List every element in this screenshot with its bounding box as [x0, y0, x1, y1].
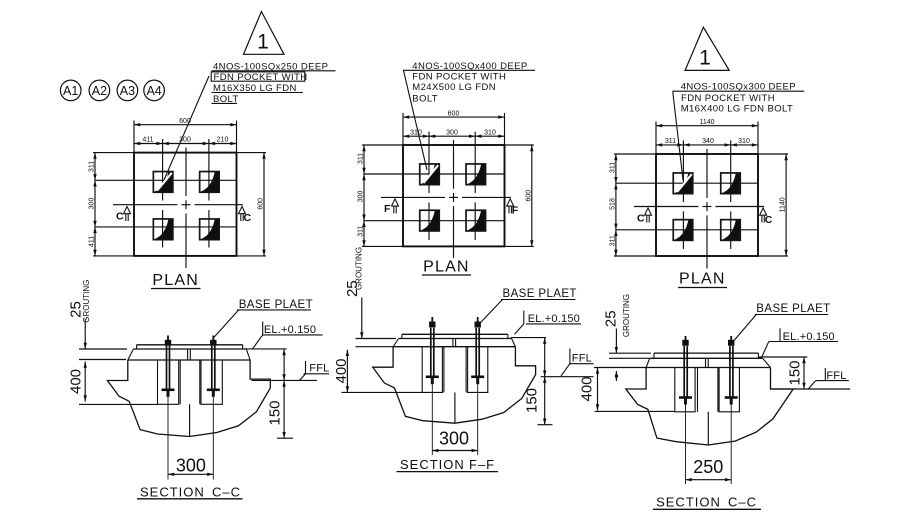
section2 footing outline	[373, 347, 536, 424]
plan2 left extension lines	[362, 144, 403, 146]
section3 grout layer	[646, 358, 650, 367]
svg-text:1140: 1140	[699, 119, 714, 126]
section3 base plate	[654, 352, 758, 354]
plan3 horizontal centerline	[634, 206, 699, 208]
svg-text:F–F: F–F	[469, 457, 495, 472]
svg-text:25: 25	[602, 310, 619, 327]
section1 dim EL to FFL	[283, 349, 285, 380]
plan1 section arrow C right	[239, 207, 246, 222]
svg-text:C: C	[765, 214, 773, 226]
svg-text:FDN POCKET WITH: FDN POCKET WITH	[412, 72, 506, 83]
plan2 right dimension line 600	[531, 145, 533, 246]
svg-text:SECTION: SECTION	[656, 494, 721, 509]
plan1 left dimension line	[94, 153, 96, 256]
section1 base plate	[137, 344, 243, 346]
svg-text:FFL: FFL	[826, 370, 846, 382]
plan3 left dimension line	[615, 154, 617, 256]
plan3 section arrow C right	[760, 208, 767, 223]
section2 centerline below	[454, 392, 456, 423]
svg-text:A4: A4	[146, 84, 161, 98]
svg-text:310: 310	[410, 129, 422, 136]
plan3 footing outline	[656, 154, 758, 256]
svg-text:300: 300	[358, 190, 365, 202]
plan2 pocket upper-right	[466, 164, 486, 185]
leader to plan 2 pocket	[404, 71, 428, 171]
svg-text:600: 600	[258, 198, 265, 210]
svg-text:A3: A3	[120, 84, 135, 98]
svg-text:C–C: C–C	[212, 484, 241, 499]
plan3 left extension lines	[614, 153, 656, 155]
svg-text:1140: 1140	[780, 197, 787, 212]
plan2 pocket column centerlines	[428, 132, 430, 193]
svg-text:600: 600	[179, 118, 191, 125]
plan1 pocket lower-right	[200, 219, 220, 240]
plan2 left dimension line	[363, 145, 365, 246]
plan1 pocket upper-left	[153, 172, 173, 193]
svg-text:311: 311	[358, 153, 365, 164]
grid circle A2	[89, 80, 110, 101]
svg-text:M16X400 LG FDN BOLT: M16X400 LG FDN BOLT	[681, 104, 794, 115]
svg-text:GROUTING: GROUTING	[82, 280, 91, 323]
svg-text:PLAN: PLAN	[679, 271, 726, 288]
leader to plan 3 pocket	[673, 91, 683, 180]
plan2 footing outline	[403, 145, 505, 246]
section1 anchor bolt right	[212, 336, 214, 341]
plan1 top chain dimension 411/300/210	[134, 143, 237, 145]
section1 pocket right	[201, 360, 222, 404]
svg-text:311: 311	[358, 226, 365, 237]
svg-text:411: 411	[142, 137, 153, 144]
svg-text:SECTION: SECTION	[400, 457, 465, 472]
svg-text:300: 300	[446, 129, 458, 136]
section2 anchor bolt left	[431, 317, 433, 322]
plan1 pocket upper-right	[200, 172, 220, 193]
svg-text:150: 150	[787, 360, 804, 385]
plan2 horizontal centerline	[381, 196, 445, 198]
section1 grout layer	[128, 349, 134, 360]
plan3 pocket column centerlines	[682, 140, 684, 202]
plan1 pocket lower-left	[153, 219, 173, 240]
section2 pocket left	[422, 347, 442, 393]
svg-text:300: 300	[439, 429, 469, 449]
svg-text:BOLT: BOLT	[412, 94, 438, 105]
svg-text:BASE PLAET: BASE PLAET	[756, 303, 830, 315]
plan1 horizontal centerline	[113, 204, 178, 206]
section1 centerline below	[189, 404, 191, 436]
svg-text:FDN POCKET WITH: FDN POCKET WITH	[681, 93, 775, 104]
plan3 pocket row centerline lower	[616, 229, 758, 231]
svg-text:311: 311	[665, 138, 676, 145]
plan2 pocket row centerline lower	[364, 220, 505, 222]
section3 anchor bolt left	[685, 336, 687, 340]
section1 column between pockets	[179, 360, 181, 404]
plan2 section arrow F right	[507, 199, 514, 214]
section2 dim EL to FFL	[544, 338, 546, 377]
plan3 pocket lower-right	[721, 220, 741, 241]
section3 centerline below	[707, 412, 709, 445]
svg-text:EL.+0.150: EL.+0.150	[264, 324, 316, 336]
plan2 pocket lower-right	[466, 210, 486, 231]
svg-text:C: C	[116, 211, 124, 223]
plan2 vertical centerline	[453, 140, 455, 189]
svg-text:GROUTING: GROUTING	[622, 294, 631, 337]
plan2 overall top dimension 600	[403, 116, 505, 118]
svg-text:C–C: C–C	[728, 494, 757, 509]
section1 bolt extension lines	[167, 397, 169, 480]
section2 column between pockets	[443, 347, 445, 393]
section2 pocket right	[468, 347, 488, 393]
grid circle A4	[144, 80, 165, 101]
section2 base plate	[402, 333, 508, 335]
plan1 section arrow C left	[124, 207, 131, 222]
plan3 vertical centerline	[706, 149, 708, 198]
plan3 pocket upper-right	[721, 173, 741, 194]
plan1 pocket row centerline lower	[95, 226, 237, 228]
svg-text:1: 1	[699, 47, 711, 70]
svg-text:BASE PLAET: BASE PLAET	[503, 288, 577, 300]
plan2 section arrow F left	[392, 199, 399, 214]
svg-text:600: 600	[525, 190, 532, 202]
plan3 top chain dimension 311/340/310	[656, 144, 758, 146]
svg-text:C: C	[244, 212, 252, 224]
plan1 footing outline	[134, 153, 237, 256]
revision triangle 1 (left)	[244, 12, 285, 55]
plan2 top chain dimension 310/300/310	[403, 135, 505, 137]
section3 column between pockets	[697, 368, 699, 412]
svg-text:300: 300	[179, 137, 191, 144]
svg-text:311: 311	[610, 162, 617, 173]
svg-text:FFL: FFL	[572, 353, 592, 365]
plan1 vertical centerline	[185, 148, 187, 197]
svg-text:340: 340	[702, 138, 714, 145]
svg-text:310: 310	[484, 129, 496, 136]
section2 anchor bolt right	[477, 317, 479, 322]
svg-text:FFL: FFL	[309, 363, 329, 375]
svg-text:PLAN: PLAN	[152, 272, 199, 289]
section3 footing outline	[626, 368, 793, 446]
svg-text:A1: A1	[63, 84, 78, 98]
plan1 pocket row centerline upper	[95, 179, 237, 181]
plan1 pocket column centerlines	[162, 139, 164, 201]
svg-text:311: 311	[610, 235, 617, 246]
svg-text:400: 400	[579, 376, 596, 401]
svg-text:A2: A2	[92, 84, 107, 98]
svg-text:311: 311	[89, 161, 96, 172]
section1 anchor bolt left	[167, 336, 169, 341]
svg-text:C: C	[637, 213, 645, 225]
svg-text:150: 150	[267, 400, 284, 425]
plan1 overall top dimension 600	[134, 124, 237, 126]
svg-text:F: F	[384, 203, 391, 215]
plan3 pocket upper-left	[673, 173, 693, 194]
section3 pocket left	[675, 368, 695, 412]
svg-text:F: F	[512, 204, 519, 216]
section1 pocket left	[158, 360, 179, 404]
svg-text:310: 310	[738, 138, 750, 145]
section2 grout layer	[393, 339, 399, 347]
svg-text:SECTION: SECTION	[140, 484, 205, 499]
svg-text:M24X500 LG FDN: M24X500 LG FDN	[412, 82, 496, 93]
plan2 pocket lower-left	[420, 210, 440, 231]
section3 dim pedestal to FFL arrows	[615, 371, 617, 381]
plan2 pocket row centerline upper	[364, 173, 505, 175]
svg-text:300: 300	[89, 198, 96, 210]
svg-text:250: 250	[693, 457, 723, 477]
svg-text:518: 518	[610, 198, 617, 210]
svg-text:600: 600	[448, 110, 460, 117]
plan3 section arrow C left	[645, 208, 652, 223]
leader to plan 1 pocket	[164, 76, 209, 180]
svg-text:400: 400	[68, 369, 85, 394]
svg-text:1: 1	[257, 31, 269, 54]
svg-text:PLAN: PLAN	[423, 259, 470, 276]
svg-text:210: 210	[217, 137, 229, 144]
svg-text:GROUTING: GROUTING	[355, 247, 364, 290]
section3 anchor bolt right	[730, 336, 732, 340]
svg-text:EL.+0.150: EL.+0.150	[528, 313, 580, 325]
section1 footing outline	[107, 360, 270, 437]
section2 bolt extension lines	[431, 384, 433, 455]
revision triangle 1 (right)	[685, 27, 729, 70]
plan2 pocket upper-left	[420, 164, 440, 185]
svg-text:411: 411	[89, 236, 96, 247]
svg-text:300: 300	[176, 455, 206, 475]
plan1 right dimension line 600	[263, 153, 265, 256]
plan3 overall top dimension 1140	[656, 125, 758, 127]
svg-text:150: 150	[524, 388, 541, 413]
section3 bolt extension lines	[685, 405, 687, 485]
plan3 pocket row centerline upper	[616, 182, 758, 184]
section3 pocket right	[719, 368, 739, 412]
grid circle A1	[60, 80, 81, 101]
plan1 left extension lines	[93, 152, 134, 154]
plan3 right dimension line 1140	[785, 154, 787, 256]
grid circle A3	[117, 80, 138, 101]
plan3 pocket lower-left	[673, 220, 693, 241]
